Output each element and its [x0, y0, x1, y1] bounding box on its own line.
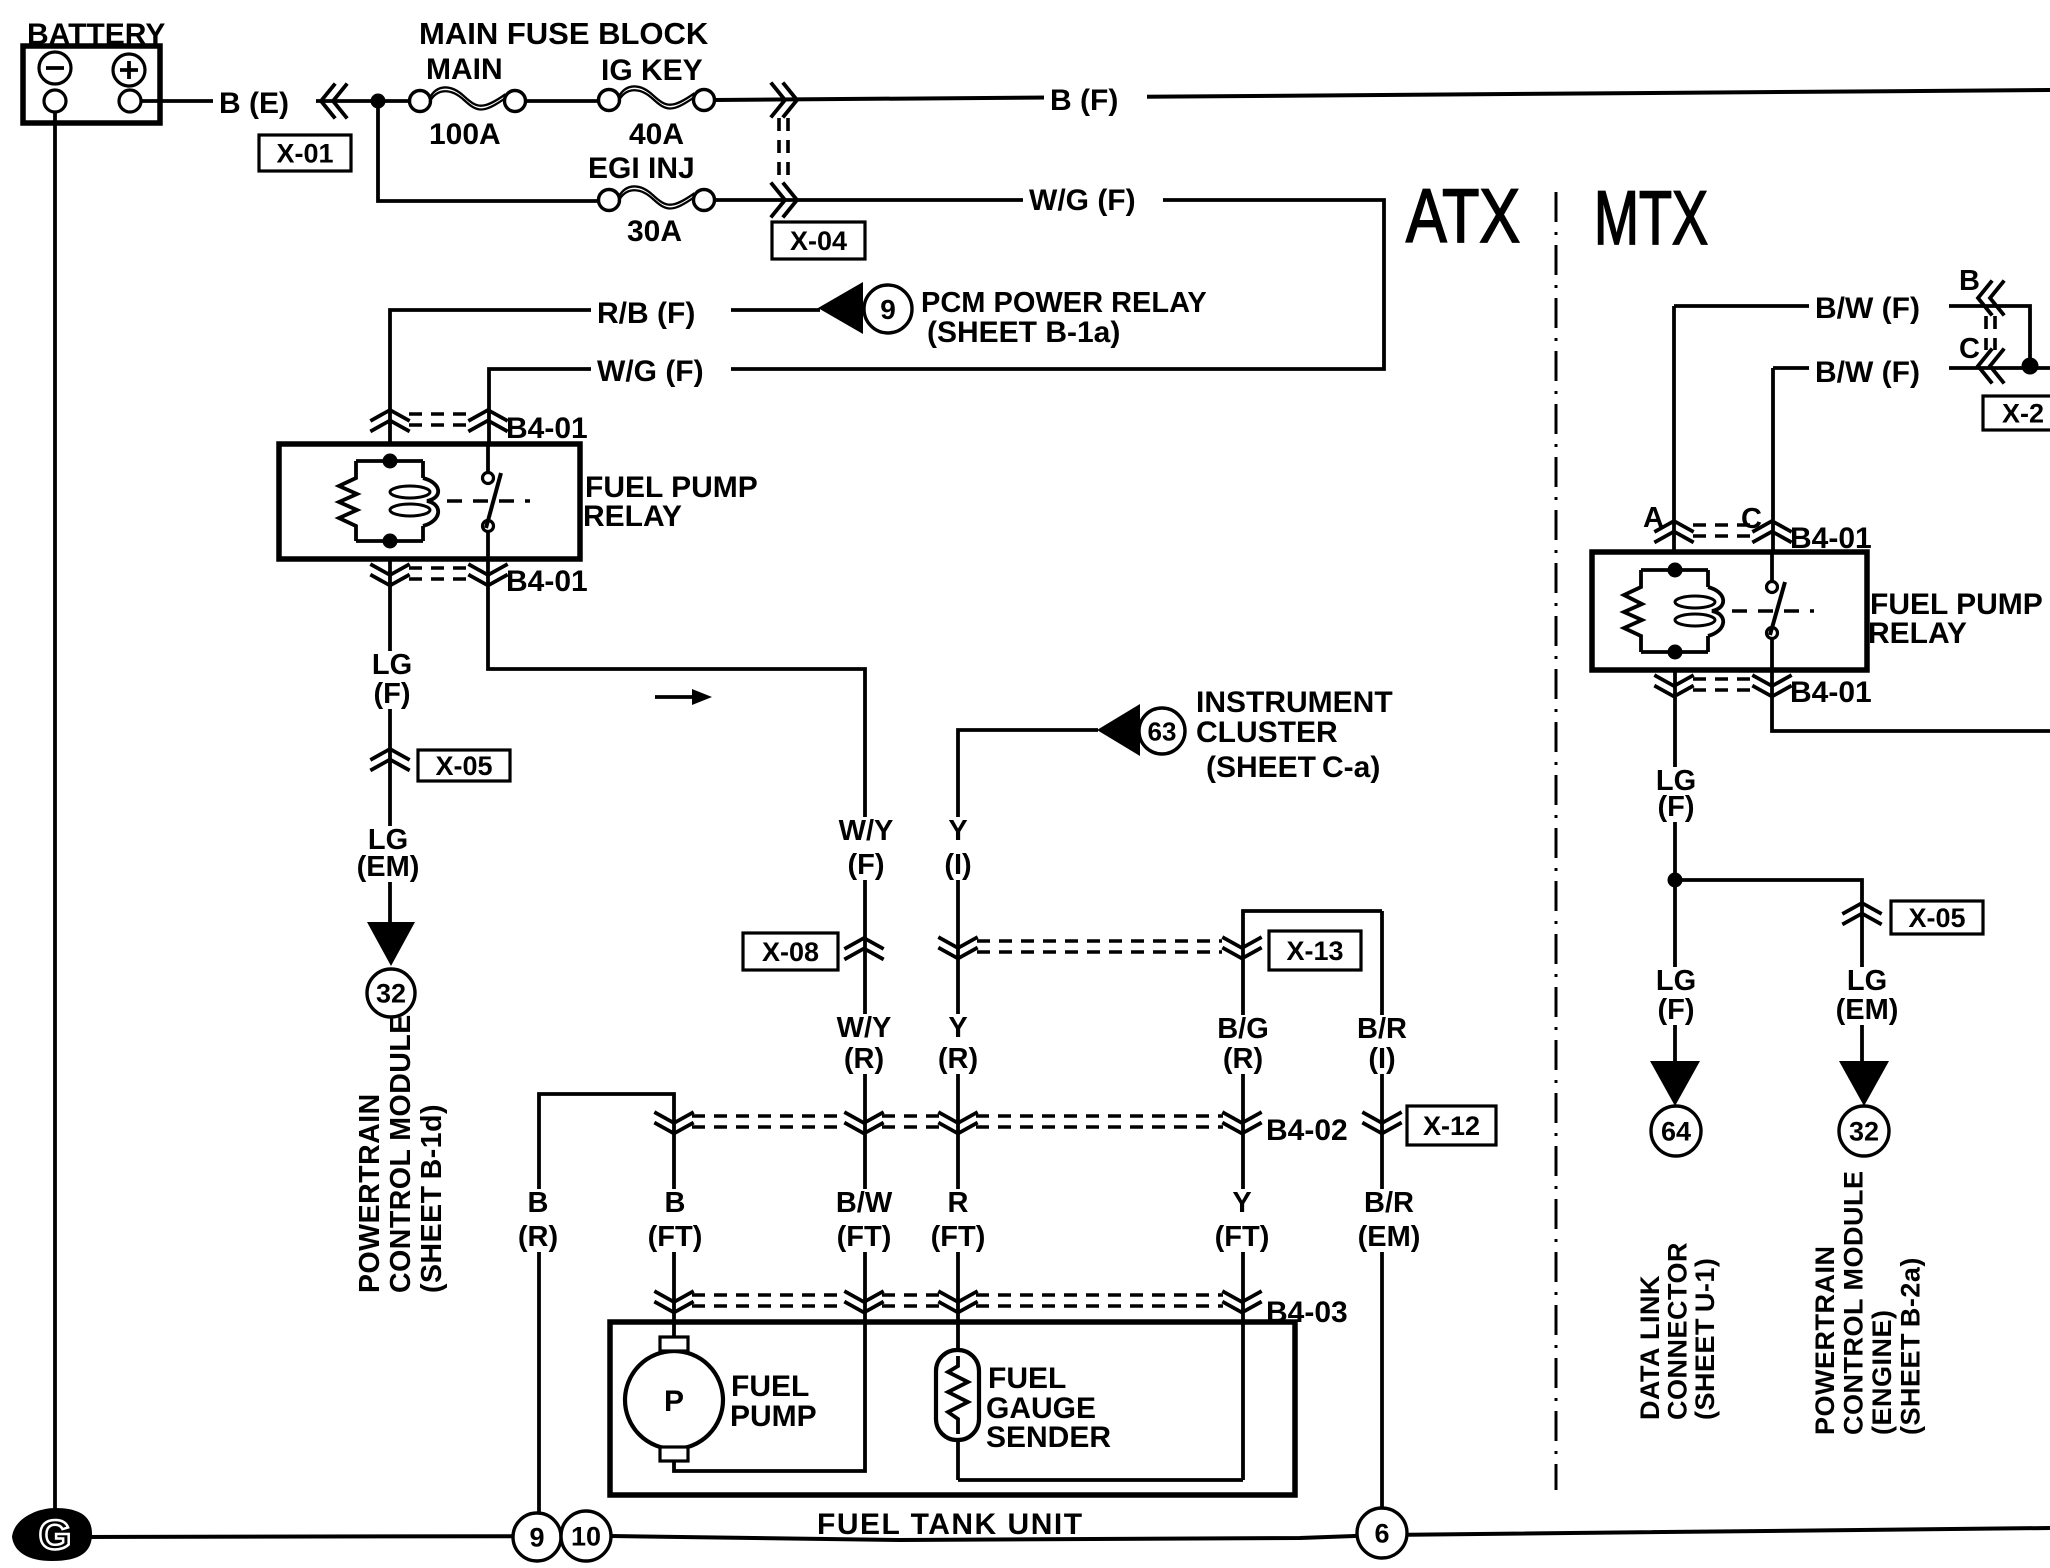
wire MTX B/W (F) row B	[1674, 306, 2030, 366]
svg-text:30A: 30A	[627, 215, 682, 248]
connector box X-04	[772, 222, 865, 259]
svg-text:10: 10	[571, 1522, 601, 1552]
circle 32 MTX PCM	[1839, 1106, 1889, 1156]
connector box X-12	[1407, 1106, 1496, 1145]
svg-text:(R): (R)	[518, 1221, 558, 1253]
svg-text:FUEL TANK UNIT: FUEL TANK UNIT	[817, 1508, 1084, 1541]
svg-text:9: 9	[880, 294, 896, 325]
svg-text:B (E): B (E)	[219, 87, 289, 120]
wire MAIN fuse to IG KEY fuse	[525, 99, 599, 103]
svg-text:(EM): (EM)	[1836, 994, 1899, 1026]
svg-text:RELAY: RELAY	[1868, 617, 1967, 650]
data link connector label	[1635, 1242, 1720, 1420]
wire label LG (EM) ATX	[347, 826, 428, 882]
wire B/R (EM) down to ground circle 6	[1380, 911, 1384, 1533]
svg-text:(R): (R)	[938, 1043, 978, 1075]
connector MTX B4-01 bottom dashes	[1693, 679, 1753, 690]
connector box X-05 ATX	[418, 750, 510, 781]
svg-text:RELAY: RELAY	[583, 500, 682, 533]
svg-text:(R): (R)	[1223, 1043, 1263, 1075]
svg-text:32: 32	[376, 979, 406, 1009]
svg-text:X-05: X-05	[435, 751, 492, 781]
wire label R/B (F)	[591, 298, 731, 328]
svg-text:W/G (F): W/G (F)	[1029, 184, 1136, 217]
svg-text:R/B (F): R/B (F)	[597, 297, 695, 330]
wire label B (E)	[213, 88, 316, 118]
connector chevron X-05 ATX	[372, 749, 408, 770]
fuel pump motor	[625, 1351, 723, 1449]
svg-text:B4-01: B4-01	[506, 565, 588, 598]
wire MTX B/W (F) row C to right edge	[1773, 366, 2050, 370]
connector B4-01 bottom dashed link	[409, 568, 469, 579]
connector X-04 dashed link	[779, 118, 788, 182]
svg-text:X-13: X-13	[1286, 936, 1343, 966]
junction node MTX B/W wires	[2022, 358, 2039, 375]
svg-text:(FT): (FT)	[931, 1221, 986, 1253]
svg-text:B: B	[665, 1187, 686, 1219]
arrow down to PCM 32 ATX	[367, 922, 415, 966]
svg-text:(I): (I)	[944, 849, 971, 881]
wire label MTX LG (F) lower	[1645, 967, 1708, 1025]
svg-text:B/W (F): B/W (F)	[1815, 292, 1920, 325]
wire bracket B/G and B/R from cluster circuit	[958, 911, 1382, 1480]
wire Y (I) instrument cluster to fuel gauge sender	[958, 730, 1098, 1352]
wire MTX relay coil output LG (F)	[1673, 670, 1677, 1063]
svg-text:(SHEET B-2a): (SHEET B-2a)	[1896, 1257, 1926, 1435]
arrow down to circle 64	[1650, 1061, 1700, 1106]
svg-text:B (F): B (F)	[1050, 84, 1118, 117]
fuel gauge sender	[936, 1350, 979, 1440]
svg-text:FUEL: FUEL	[731, 1370, 809, 1403]
connector chevron B4-03 col B/W	[846, 1292, 882, 1313]
svg-text:W/Y: W/Y	[837, 1012, 892, 1044]
svg-text:BATTERY: BATTERY	[27, 18, 165, 51]
connector chevron W/G (F) at X-04	[772, 184, 797, 216]
svg-text:MTX: MTX	[1594, 176, 1708, 261]
svg-text:B/G: B/G	[1217, 1013, 1269, 1045]
svg-text:EGI INJ: EGI INJ	[588, 152, 695, 185]
svg-text:Y: Y	[948, 1012, 967, 1044]
svg-text:FUEL: FUEL	[988, 1362, 1066, 1395]
connector B4-02 dashes 3	[976, 1116, 1223, 1127]
connector chevron X-13 left	[940, 938, 976, 959]
connector chevron B4-01 bottom right	[470, 565, 506, 586]
connector B4-03 dashes 3	[976, 1295, 1223, 1306]
svg-text:64: 64	[1661, 1117, 1691, 1147]
wire junction vertical to EGI branch	[378, 101, 599, 201]
connector box X-13	[1269, 931, 1361, 970]
fuel pump relay MTX	[1592, 552, 1867, 670]
circle 6 ground	[1357, 1508, 1407, 1558]
arrow to PCM power relay	[818, 282, 863, 334]
wire label MTX LG (EM)	[1826, 967, 1907, 1025]
svg-text:PUMP: PUMP	[730, 1400, 817, 1433]
svg-text:(ENGINE): (ENGINE)	[1867, 1310, 1897, 1436]
ground symbol G	[12, 1508, 92, 1561]
svg-text:63: 63	[1148, 716, 1177, 746]
svg-text:X-08: X-08	[762, 937, 819, 967]
wire B (F) from IG KEY fuse to right edge	[714, 90, 2050, 100]
connector chevron X-13 right	[1224, 938, 1260, 959]
wire MTX LG branch to X-05	[1675, 880, 1862, 1063]
wire MTX relay pin A	[1672, 306, 1676, 553]
circle 10 ground	[561, 1511, 611, 1561]
wire ATX relay switch output W/Y	[488, 558, 865, 1471]
svg-text:X-04: X-04	[790, 226, 847, 256]
svg-text:(F): (F)	[1657, 791, 1694, 823]
connector chevron X-01	[321, 85, 346, 117]
svg-text:POWERTRAIN: POWERTRAIN	[1810, 1246, 1840, 1436]
ATX MTX divider line	[1555, 192, 1558, 1490]
svg-text:MAIN FUSE BLOCK: MAIN FUSE BLOCK	[419, 16, 709, 51]
svg-text:CONTROL MODULE: CONTROL MODULE	[385, 1014, 417, 1293]
svg-text:C: C	[1959, 333, 1980, 365]
junction node MTX LG branch	[1668, 873, 1683, 888]
svg-text:(SHEET U-1): (SHEET U-1)	[1690, 1258, 1720, 1420]
connector chevron B4-02 col B	[656, 1113, 692, 1134]
connector chevron B4-02 col R	[940, 1113, 976, 1134]
svg-text:B: B	[528, 1187, 549, 1219]
svg-text:MAIN: MAIN	[426, 53, 503, 86]
wire label R (FT)	[917, 1189, 998, 1252]
wire label B (F)	[1044, 85, 1147, 115]
connector chevron B4-02 col B/W	[846, 1113, 882, 1134]
wire label W/G (F) lower	[591, 356, 731, 386]
connector chevron B4-02 col Y	[1224, 1113, 1260, 1134]
svg-text:X-01: X-01	[276, 139, 333, 169]
connector chevron MTX B4-01 bottom right	[1754, 676, 1790, 697]
arrow down to MTX circle 32	[1839, 1061, 1889, 1106]
svg-text:R: R	[948, 1187, 969, 1219]
wire R/B (F) from relay coil to PCM power relay arrow	[390, 310, 820, 446]
circle 9 ground	[513, 1513, 561, 1561]
fuse MAIN 100A	[410, 91, 431, 112]
connector chevron B4-01 bottom left	[372, 565, 408, 586]
connector chevron X-12	[1364, 1113, 1400, 1134]
svg-text:CLUSTER: CLUSTER	[1196, 716, 1338, 749]
wire label Y (FT)	[1201, 1189, 1282, 1252]
wire ATX relay coil output LG	[388, 558, 392, 924]
svg-text:IG KEY: IG KEY	[601, 54, 703, 87]
svg-text:40A: 40A	[629, 118, 684, 151]
wire MTX relay pin C	[1771, 368, 1775, 553]
wire label Y (R)	[927, 1014, 990, 1074]
junction node battery feed	[371, 94, 386, 109]
svg-text:B/W (F): B/W (F)	[1815, 356, 1920, 389]
wire label B/W (FT)	[823, 1189, 904, 1252]
svg-text:LG: LG	[372, 649, 412, 681]
svg-text:100A: 100A	[429, 118, 501, 151]
wire label MTX B/W (F) row B	[1809, 293, 1949, 323]
svg-text:32: 32	[1849, 1117, 1879, 1147]
wire label B/R (EM)	[1348, 1189, 1429, 1252]
connector MTX B-C dashed link	[1986, 316, 1995, 350]
connector B4-01 top dashed link	[409, 414, 469, 425]
svg-text:(FT): (FT)	[837, 1221, 892, 1253]
wire label Y (I)	[927, 817, 990, 880]
circle 64 data link connector	[1651, 1106, 1701, 1156]
svg-text:(FT): (FT)	[648, 1221, 703, 1253]
svg-text:B4-01: B4-01	[506, 412, 588, 445]
svg-text:W/Y: W/Y	[839, 815, 894, 847]
svg-text:X-12: X-12	[1423, 1111, 1480, 1141]
connector MTX B4-01 top dashes	[1693, 525, 1753, 536]
wire label W/Y (R)	[833, 1014, 896, 1074]
connector X-13 dashed link	[977, 941, 1222, 952]
svg-text:INSTRUMENT: INSTRUMENT	[1196, 686, 1393, 719]
svg-text:B4-02: B4-02	[1266, 1114, 1348, 1147]
svg-text:(SHEET C-a): (SHEET C-a)	[1206, 751, 1380, 784]
fuel tank unit box	[610, 1322, 1295, 1495]
connector box X-01	[259, 135, 351, 171]
connector B4-02 dashes 2	[882, 1116, 939, 1127]
svg-text:DATA LINK: DATA LINK	[1635, 1275, 1665, 1420]
svg-text:LG: LG	[1656, 965, 1696, 997]
connector box X-05 MTX	[1891, 901, 1983, 934]
ground bus wire	[82, 1528, 2050, 1540]
arrow to instrument cluster	[1097, 704, 1140, 756]
connector chevron B (F) at X-04	[772, 84, 797, 116]
connector chevron B4-01 top right	[470, 410, 506, 431]
svg-text:(SHEET B-1d): (SHEET B-1d)	[416, 1104, 448, 1293]
svg-text:B: B	[1959, 265, 1980, 297]
circle 9 PCM power relay	[864, 285, 912, 333]
svg-text:9: 9	[529, 1523, 544, 1553]
battery	[23, 46, 160, 123]
svg-text:(F): (F)	[373, 678, 410, 710]
svg-text:(F): (F)	[847, 849, 884, 881]
wire label MTX B/W (F) row C	[1809, 357, 1949, 387]
svg-text:PCM POWER RELAY: PCM POWER RELAY	[921, 287, 1207, 319]
connector box X-2	[1983, 396, 2050, 430]
svg-text:Y: Y	[948, 815, 967, 847]
wire battery negative to ground bus	[53, 112, 57, 1522]
svg-text:W/G (F): W/G (F)	[597, 355, 704, 388]
connector box X-08	[743, 933, 838, 970]
svg-text:LG: LG	[1847, 965, 1887, 997]
wire W/G (F) from EGI fuse down to relay switch feed	[489, 200, 1384, 446]
svg-text:B/R: B/R	[1364, 1187, 1414, 1219]
svg-text:(SHEET B-1a): (SHEET B-1a)	[927, 316, 1120, 349]
svg-text:(R): (R)	[844, 1043, 884, 1075]
svg-text:POWERTRAIN: POWERTRAIN	[354, 1093, 386, 1293]
connector chevron B4-03 col B	[656, 1292, 692, 1313]
flow direction arrow	[655, 695, 694, 699]
wire label B/R (I)	[1351, 1015, 1414, 1074]
fuel pump relay ATX	[279, 444, 580, 559]
wire label W/G (F) top	[1023, 185, 1163, 215]
circle 63 instrument cluster	[1139, 708, 1185, 754]
svg-text:P: P	[664, 1385, 684, 1418]
wire B (R) pump return to ground circle 9	[539, 1094, 674, 1535]
wire label LG (F) ATX	[361, 651, 424, 709]
connector B4-03 dashes 1	[692, 1295, 845, 1306]
svg-text:(FT): (FT)	[1215, 1221, 1270, 1253]
wire MTX relay switch output to right edge	[1772, 670, 2050, 731]
svg-text:B/R: B/R	[1357, 1013, 1407, 1045]
connector chevron X-08	[846, 938, 882, 959]
powertrain control module B-2a label	[1810, 1171, 1926, 1436]
svg-text:X-2: X-2	[2002, 399, 2044, 429]
svg-text:Y: Y	[1232, 1187, 1251, 1219]
connector B4-02 dashes 1	[692, 1116, 845, 1127]
svg-text:6: 6	[1374, 1519, 1389, 1549]
connector chevron B4-01 top left	[372, 410, 408, 431]
wire battery positive B (E) to main fuse	[141, 99, 410, 103]
circle 32 ATX PCM	[367, 969, 415, 1017]
connector chevron MTX B4-01 bottom left	[1656, 676, 1692, 697]
wire label B (R)	[507, 1189, 570, 1252]
connector chevron MTX pin C	[1978, 350, 2003, 382]
svg-text:X-05: X-05	[1908, 903, 1965, 933]
connector chevron B4-03 col Y	[1224, 1292, 1260, 1313]
fuse EGI INJ 30A	[599, 190, 620, 211]
svg-text:B/W: B/W	[836, 1187, 893, 1219]
svg-text:B4-01: B4-01	[1790, 676, 1872, 709]
connector chevron B4-03 col R	[940, 1292, 976, 1313]
svg-text:(F): (F)	[1657, 994, 1694, 1026]
svg-text:CONNECTOR: CONNECTOR	[1663, 1242, 1693, 1420]
wire label W/Y (F)	[835, 817, 898, 880]
connector B4-03 dashes 2	[882, 1295, 939, 1306]
wire label MTX LG (F) upper	[1645, 767, 1708, 822]
connector chevron MTX B4-01 top right	[1754, 521, 1790, 542]
wire label B (FT)	[634, 1189, 715, 1252]
fuse IG KEY 40A	[599, 90, 620, 111]
connector chevron MTX X-05	[1844, 903, 1880, 924]
connector chevron MTX B4-01 top left	[1656, 521, 1692, 542]
wire label B/G (R)	[1212, 1015, 1275, 1074]
connector chevron MTX pin B	[1978, 282, 2003, 314]
svg-text:G: G	[39, 1511, 72, 1558]
svg-text:CONTROL MODULE: CONTROL MODULE	[1839, 1171, 1869, 1436]
svg-text:SENDER: SENDER	[986, 1421, 1111, 1454]
svg-text:(I): (I)	[1368, 1043, 1395, 1075]
powertrain control module B-1d label	[354, 1014, 448, 1293]
svg-text:ATX: ATX	[1406, 174, 1520, 259]
svg-text:(EM): (EM)	[1358, 1221, 1421, 1253]
svg-text:(EM): (EM)	[357, 851, 420, 883]
